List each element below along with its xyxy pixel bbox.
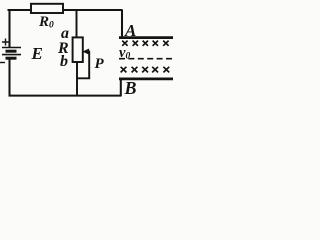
plate A [119, 36, 173, 39]
wire left vertical upper [8, 9, 10, 47]
svg-text:b: b [60, 53, 68, 70]
battery E short plate 1 [6, 50, 17, 53]
wire junction vertical to rheostat top [76, 10, 78, 38]
wire plate B to bottom rail [120, 79, 122, 96]
battery E long plate 1 [2, 47, 21, 49]
battery E short plate 2 [6, 57, 17, 60]
field cross row 1 [122, 41, 168, 46]
wire top horizontal to right corner [63, 9, 122, 11]
battery E long plate 2 [2, 54, 21, 56]
wire right vertical to plate A [121, 10, 123, 38]
rheostat R box [73, 37, 83, 62]
slider P arrow [83, 49, 89, 54]
wire slider stub and down [77, 52, 89, 79]
battery plus sign [2, 39, 9, 46]
wire rheostat bottom to bottom rail [76, 62, 78, 95]
svg-text:A: A [124, 21, 136, 40]
field cross row 2 [121, 67, 170, 73]
trajectory dashed line [119, 58, 173, 60]
plate B [119, 78, 173, 81]
wire bottom horizontal [9, 95, 122, 97]
resistor R0 [31, 4, 63, 13]
battery minus sign [0, 62, 5, 64]
svg-text:R0: R0 [38, 14, 54, 31]
svg-text:E: E [31, 44, 43, 63]
svg-text:P: P [95, 56, 105, 72]
wire top-left horizontal [8, 9, 32, 11]
wire left vertical lower [8, 60, 10, 97]
svg-text:B: B [124, 78, 137, 98]
